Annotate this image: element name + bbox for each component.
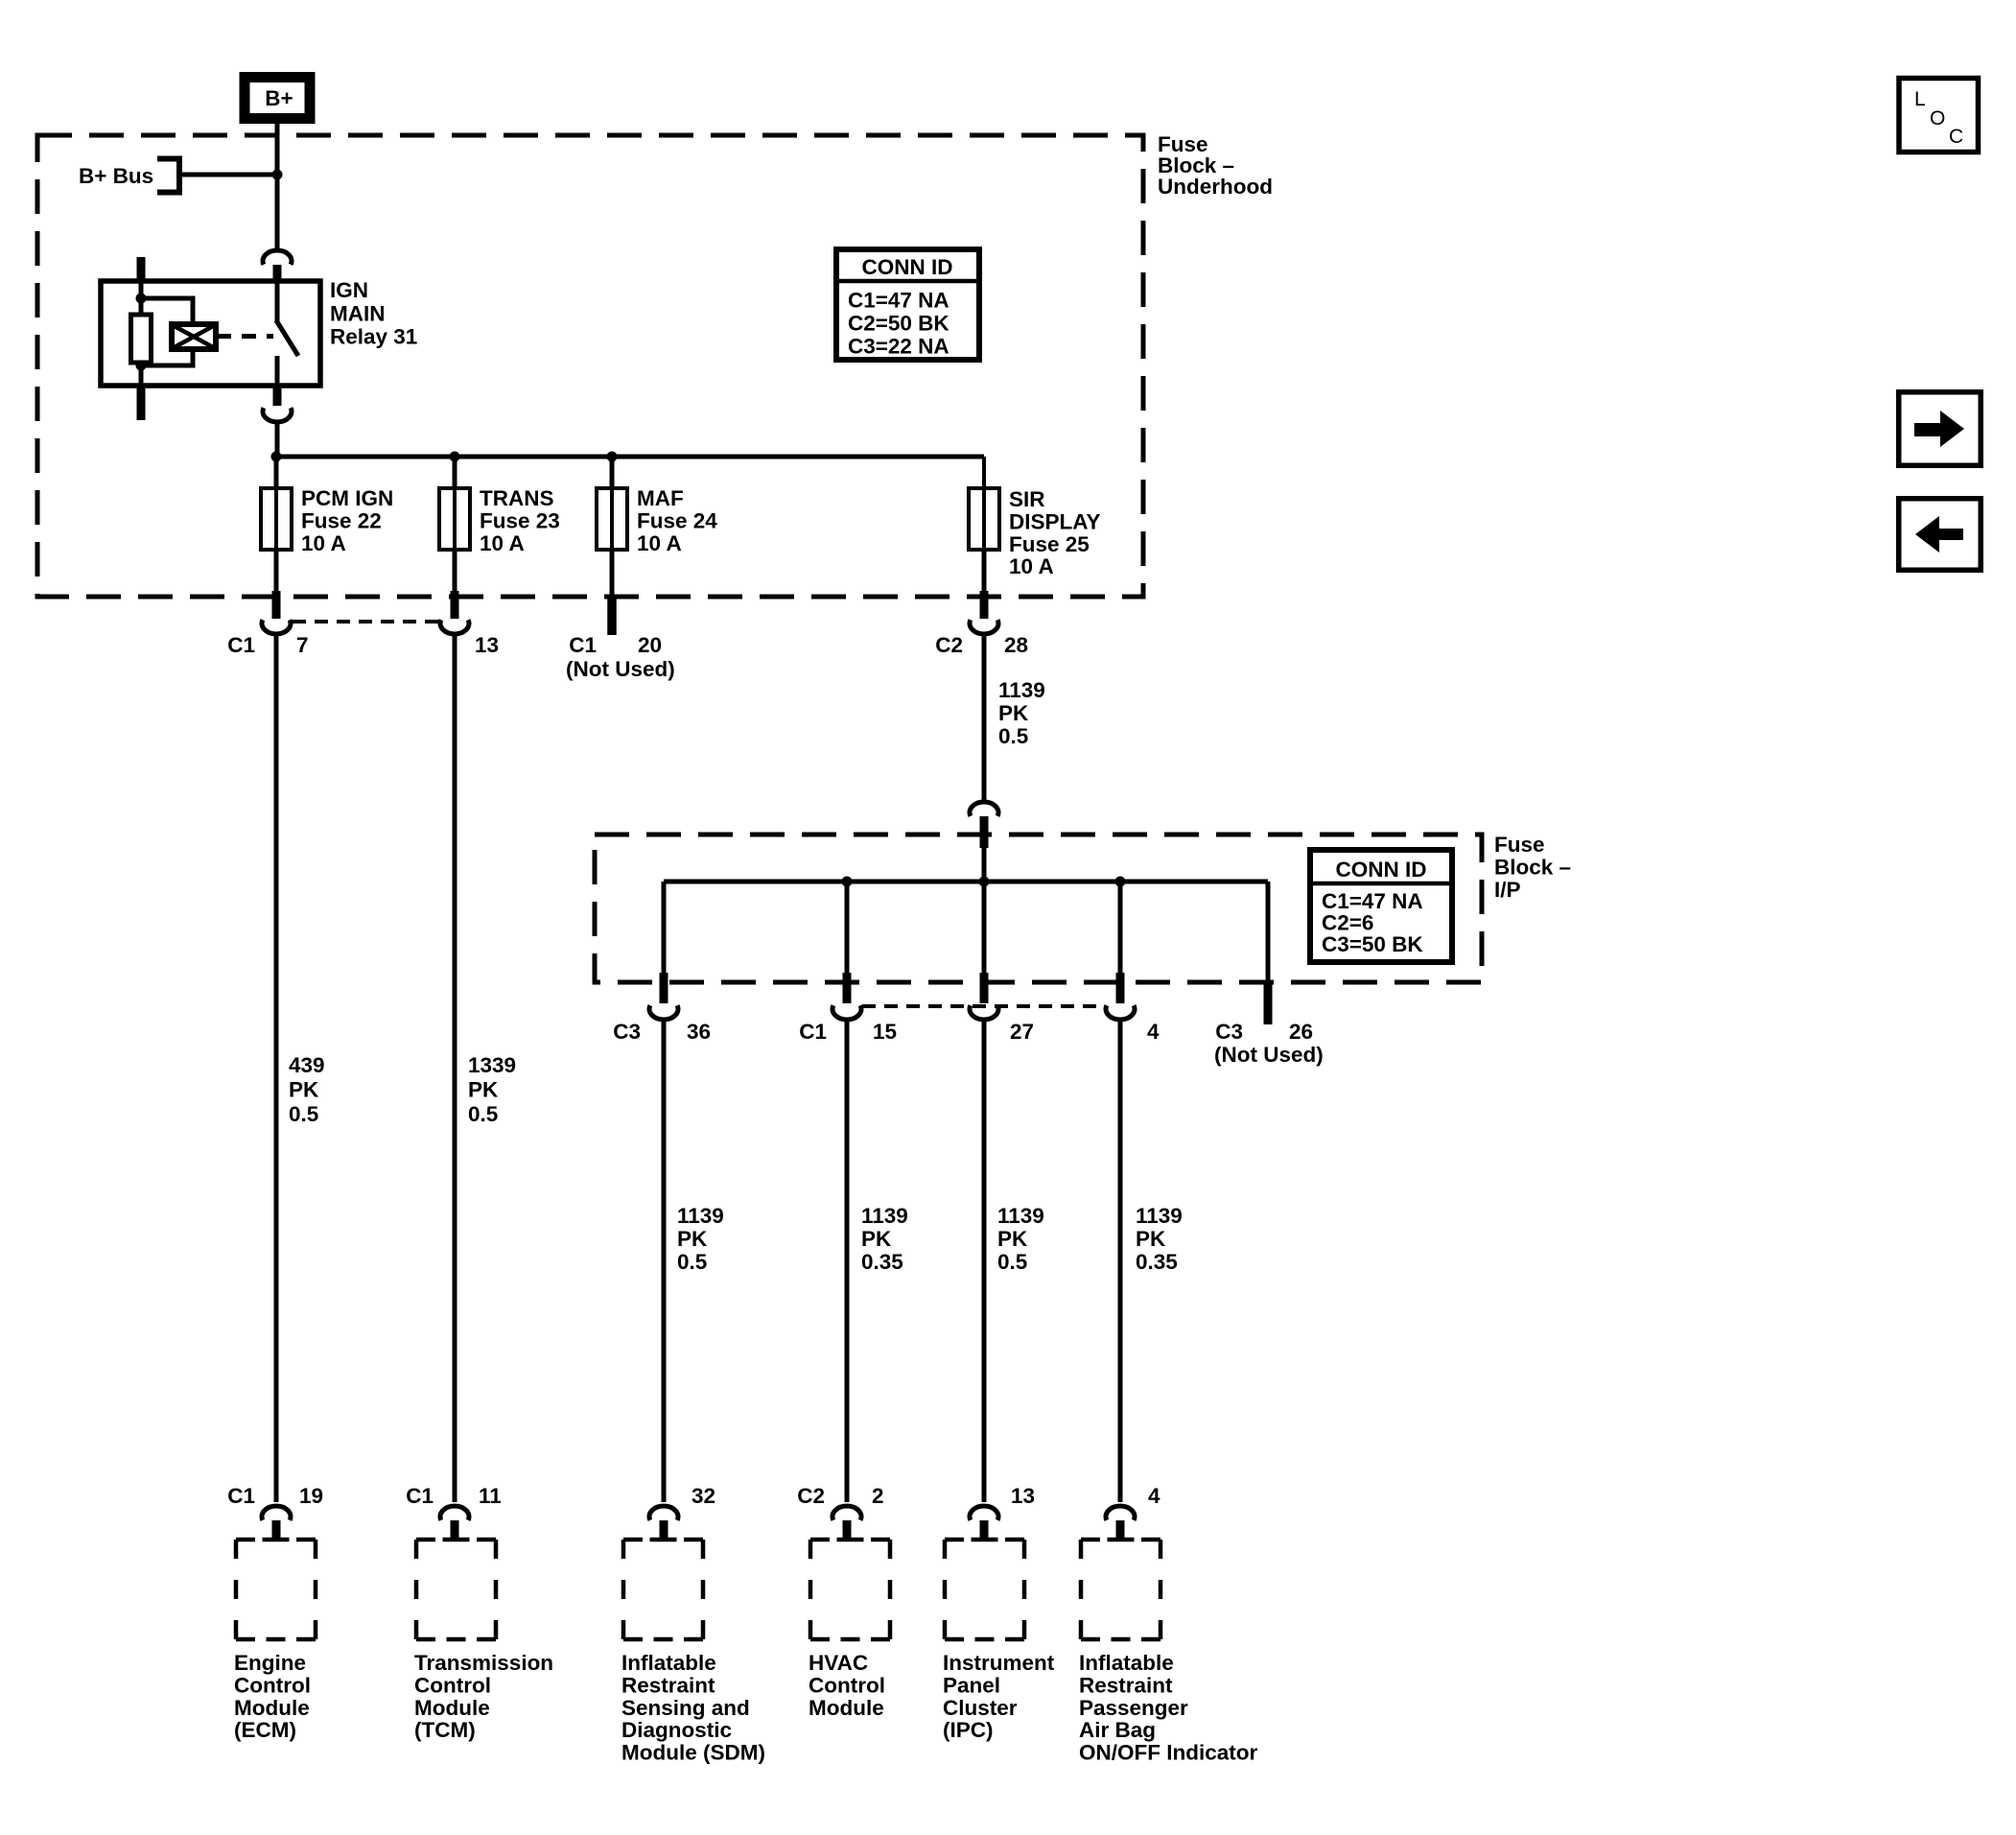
svg-text:Relay 31: Relay 31 bbox=[330, 325, 417, 349]
connector C2 pin 28 arc bbox=[970, 620, 998, 634]
SDM dashed box bbox=[623, 1538, 643, 1542]
svg-text:C1: C1 bbox=[799, 1020, 827, 1044]
svg-text:1139: 1139 bbox=[677, 1204, 724, 1228]
resistor (relay suppression) bbox=[131, 315, 152, 363]
svg-text:Instrument: Instrument bbox=[943, 1651, 1055, 1675]
wire circuit 439 run bbox=[274, 634, 279, 1502]
svg-text:Module: Module bbox=[414, 1696, 490, 1720]
svg-text:PK: PK bbox=[861, 1227, 892, 1251]
power terminal B+ box bbox=[245, 78, 310, 119]
svg-text:(Not Used): (Not Used) bbox=[566, 657, 675, 681]
svg-text:20: 20 bbox=[638, 633, 662, 657]
svg-text:Module: Module bbox=[809, 1696, 884, 1720]
svg-text:0.5: 0.5 bbox=[998, 724, 1028, 748]
fuse22 pin stub bbox=[272, 591, 281, 619]
svg-text:13: 13 bbox=[475, 633, 499, 657]
svg-text:27: 27 bbox=[1010, 1020, 1034, 1044]
wire circuit 1339 run bbox=[453, 634, 457, 1502]
svg-text:28: 28 bbox=[1004, 633, 1028, 657]
wire fuse23 output bbox=[453, 550, 457, 593]
svg-text:B+ Bus: B+ Bus bbox=[79, 164, 153, 188]
svg-text:10 A: 10 A bbox=[480, 531, 525, 555]
wire circuit 1139 to SDM bbox=[662, 1020, 667, 1502]
connector (I/P fuse block input) arc bbox=[970, 802, 998, 816]
svg-text:36: 36 bbox=[687, 1020, 711, 1044]
node bus at fuse 22 bbox=[271, 452, 282, 462]
svg-text:MAF: MAF bbox=[637, 486, 684, 510]
svg-text:11: 11 bbox=[479, 1484, 502, 1508]
svg-text:PK: PK bbox=[468, 1078, 499, 1102]
svg-text:O: O bbox=[1930, 107, 1945, 129]
svg-text:C1: C1 bbox=[406, 1484, 434, 1508]
svg-text:1139: 1139 bbox=[1136, 1204, 1183, 1228]
connector pin 13 arc bbox=[440, 620, 469, 634]
I/P output C3 pin 36 bbox=[662, 882, 667, 975]
node I/P bus at pin15 bbox=[842, 877, 853, 887]
svg-text:PK: PK bbox=[998, 701, 1029, 725]
I/P output pin 27 bbox=[982, 882, 987, 975]
svg-text:Fuse 24: Fuse 24 bbox=[637, 508, 717, 532]
svg-text:2: 2 bbox=[872, 1484, 884, 1508]
relay actuation dashed link bbox=[217, 334, 273, 339]
IPC dashed box bbox=[945, 1538, 964, 1542]
CONN ID table (I/P) bbox=[1310, 850, 1452, 962]
wire fuse25 output bbox=[982, 550, 987, 593]
wire circuit 1139 feed bbox=[982, 634, 987, 802]
svg-text:Fuse 25: Fuse 25 bbox=[1009, 532, 1090, 556]
node bus at fuse 24 bbox=[607, 452, 618, 462]
svg-text:Engine: Engine bbox=[234, 1651, 306, 1675]
svg-text:PCM IGN: PCM IGN bbox=[301, 486, 393, 510]
svg-text:Inflatable: Inflatable bbox=[1079, 1651, 1174, 1675]
svg-text:(Not Used): (Not Used) bbox=[1214, 1043, 1324, 1067]
svg-text:C3: C3 bbox=[1215, 1020, 1243, 1044]
connector (relay bottom) arc bbox=[263, 408, 292, 422]
svg-text:C3: C3 bbox=[613, 1020, 641, 1044]
HVAC dashed box bbox=[810, 1538, 830, 1542]
relay output pin stub bbox=[273, 386, 282, 406]
fuse24 not-used stub bbox=[607, 596, 617, 635]
wire circuit 1139 to indicator bbox=[1118, 1020, 1123, 1502]
svg-text:0.5: 0.5 bbox=[997, 1250, 1027, 1274]
svg-text:Control: Control bbox=[414, 1673, 491, 1697]
svg-text:1139: 1139 bbox=[861, 1204, 908, 1228]
svg-text:Module (SDM): Module (SDM) bbox=[621, 1741, 765, 1765]
svg-text:I/P: I/P bbox=[1494, 878, 1521, 902]
wire coil branch bottom bbox=[141, 347, 193, 365]
svg-text:C1: C1 bbox=[227, 633, 255, 657]
fuse23 pin stub bbox=[451, 591, 459, 619]
svg-text:Fuse 23: Fuse 23 bbox=[480, 508, 560, 532]
svg-text:(IPC): (IPC) bbox=[943, 1718, 994, 1742]
svg-text:C3=50 BK: C3=50 BK bbox=[1322, 932, 1423, 956]
svg-text:0.5: 0.5 bbox=[677, 1250, 707, 1274]
svg-text:Inflatable: Inflatable bbox=[621, 1651, 716, 1675]
dashed connector link C1 bbox=[293, 620, 438, 623]
svg-text:26: 26 bbox=[1289, 1020, 1313, 1044]
svg-text:Block –: Block – bbox=[1494, 855, 1571, 879]
node I/P bus at pin4 bbox=[1115, 877, 1126, 887]
svg-text:PK: PK bbox=[997, 1227, 1028, 1251]
I/P input pin stub bbox=[980, 816, 989, 848]
svg-text:SIR: SIR bbox=[1009, 487, 1045, 511]
LOC reference icon bbox=[1899, 79, 1979, 153]
svg-text:C2=6: C2=6 bbox=[1322, 910, 1373, 934]
wire fuse24 output bbox=[610, 550, 615, 595]
wire I/P input to bus bbox=[982, 848, 987, 882]
relay coil terminal stub bottom bbox=[137, 386, 146, 420]
svg-text:Transmission: Transmission bbox=[414, 1651, 553, 1675]
svg-text:C1: C1 bbox=[227, 1484, 255, 1508]
ECM dashed box bbox=[236, 1538, 255, 1542]
svg-text:C1=47 NA: C1=47 NA bbox=[1322, 889, 1423, 913]
fuse25 pin stub bbox=[980, 591, 989, 619]
svg-text:439: 439 bbox=[289, 1053, 325, 1077]
svg-text:B+: B+ bbox=[265, 86, 293, 110]
wire fuse supply bus bbox=[275, 455, 984, 459]
svg-text:0.35: 0.35 bbox=[861, 1250, 903, 1274]
svg-text:13: 13 bbox=[1011, 1484, 1035, 1508]
fuse F22 PCM IGN 10A bbox=[274, 457, 279, 488]
svg-text:HVAC: HVAC bbox=[809, 1651, 868, 1675]
svg-text:0.35: 0.35 bbox=[1136, 1250, 1178, 1274]
svg-text:1339: 1339 bbox=[468, 1053, 516, 1077]
svg-text:PK: PK bbox=[1136, 1227, 1166, 1251]
svg-text:C: C bbox=[1949, 126, 1963, 148]
svg-text:Underhood: Underhood bbox=[1158, 175, 1273, 199]
svg-text:7: 7 bbox=[296, 633, 309, 657]
svg-text:C1=47 NA: C1=47 NA bbox=[848, 289, 949, 313]
svg-text:4: 4 bbox=[1148, 1484, 1160, 1508]
connector C2 pin 2 (HVAC) arc bbox=[832, 1506, 861, 1520]
svg-text:Module: Module bbox=[234, 1696, 310, 1720]
svg-text:15: 15 bbox=[873, 1020, 897, 1044]
svg-text:C3=22 NA: C3=22 NA bbox=[848, 335, 949, 359]
svg-text:1139: 1139 bbox=[998, 678, 1045, 702]
CONN ID table (underhood) bbox=[836, 249, 979, 360]
fuse F23 TRANS 10A bbox=[453, 457, 457, 488]
wire relay switch output bbox=[275, 356, 280, 386]
back arrow icon bbox=[1899, 499, 1981, 571]
svg-text:10 A: 10 A bbox=[1009, 554, 1054, 578]
fuse F25 SIR DISPLAY 10A bbox=[982, 457, 986, 488]
node bus at fuse 23 bbox=[450, 452, 460, 462]
I/P output C3 pin 26 wire bbox=[1266, 882, 1271, 984]
svg-text:1139: 1139 bbox=[997, 1204, 1044, 1228]
relay top pin stub bbox=[273, 265, 282, 281]
relay coil terminal stub top bbox=[137, 257, 146, 281]
dashed connector link I/P bbox=[862, 1004, 1105, 1008]
svg-text:Panel: Panel bbox=[943, 1673, 1000, 1697]
wire I/P distribution bus bbox=[664, 880, 1268, 884]
wire relay switch common bbox=[275, 281, 280, 321]
svg-text:CONN ID: CONN ID bbox=[862, 255, 953, 279]
svg-text:C2=50 BK: C2=50 BK bbox=[848, 312, 949, 336]
wire B+ Bus tap bbox=[182, 173, 277, 177]
svg-text:DISPLAY: DISPLAY bbox=[1009, 509, 1100, 533]
wire B+ terminal to relay connector bbox=[275, 124, 280, 248]
svg-text:C2: C2 bbox=[797, 1484, 825, 1508]
wire circuit 1139 to HVAC bbox=[845, 1020, 850, 1502]
svg-text:4: 4 bbox=[1147, 1020, 1160, 1044]
fuse F24 MAF 10A bbox=[610, 457, 615, 488]
svg-text:MAIN: MAIN bbox=[330, 301, 386, 325]
forward arrow icon bbox=[1899, 392, 1981, 466]
I/P output pin 4 bbox=[1118, 882, 1123, 975]
TCM dashed box bbox=[416, 1538, 435, 1542]
svg-text:Restraint: Restraint bbox=[621, 1673, 715, 1697]
svg-text:19: 19 bbox=[299, 1484, 323, 1508]
svg-text:TRANS: TRANS bbox=[480, 486, 554, 510]
connector C1 pin 19 (ECM) arc bbox=[262, 1506, 291, 1520]
fuse block I/P dashed enclosure bbox=[595, 835, 1482, 982]
wire fuse22 output bbox=[274, 550, 279, 593]
B+ Bus bar symbol bbox=[157, 159, 179, 193]
wire relay coil left leg lower bbox=[139, 361, 144, 386]
air bag indicator dashed box bbox=[1081, 1538, 1100, 1542]
connector pin 4 (air bag indicator) arc bbox=[1106, 1506, 1135, 1520]
svg-text:ON/OFF Indicator: ON/OFF Indicator bbox=[1079, 1741, 1257, 1765]
svg-text:0.5: 0.5 bbox=[468, 1102, 498, 1126]
connector (relay top) arc bbox=[263, 250, 292, 265]
fuse block underhood dashed enclosure bbox=[37, 135, 1143, 597]
wire relay coil left leg upper bbox=[139, 281, 144, 318]
svg-text:Passenger: Passenger bbox=[1079, 1696, 1188, 1720]
node coil-resistor bottom bbox=[136, 361, 147, 371]
svg-text:PK: PK bbox=[289, 1078, 319, 1102]
svg-text:Control: Control bbox=[809, 1673, 885, 1697]
svg-text:Fuse 22: Fuse 22 bbox=[301, 508, 382, 532]
relay coil (box with X) bbox=[172, 324, 216, 349]
wire relay output to fuse bus bbox=[275, 422, 280, 457]
svg-text:C1: C1 bbox=[569, 633, 597, 657]
svg-text:(TCM): (TCM) bbox=[414, 1718, 476, 1742]
svg-text:Control: Control bbox=[234, 1673, 311, 1697]
svg-text:Cluster: Cluster bbox=[943, 1696, 1018, 1720]
svg-text:Fuse: Fuse bbox=[1494, 833, 1545, 857]
svg-text:C2: C2 bbox=[935, 633, 963, 657]
svg-text:CONN ID: CONN ID bbox=[1336, 858, 1427, 882]
wire coil branch top bbox=[141, 298, 193, 326]
node B+ bus junction bbox=[272, 170, 283, 180]
connector pin 32 (SDM) arc bbox=[649, 1506, 678, 1520]
svg-text:L: L bbox=[1914, 88, 1926, 110]
svg-text:10 A: 10 A bbox=[301, 531, 346, 555]
node I/P bus at pin27 bbox=[979, 877, 990, 887]
svg-text:10 A: 10 A bbox=[637, 531, 682, 555]
wire circuit 1139 to IPC bbox=[982, 1020, 987, 1502]
svg-text:Diagnostic: Diagnostic bbox=[621, 1718, 732, 1742]
svg-text:Sensing and: Sensing and bbox=[621, 1696, 750, 1720]
connector C1 pin 11 (TCM) arc bbox=[440, 1506, 469, 1520]
connector C1 pin 7 arc bbox=[262, 620, 291, 634]
svg-text:(ECM): (ECM) bbox=[234, 1718, 296, 1742]
relay switch blade bbox=[276, 320, 298, 356]
connector pin 13 (IPC) arc bbox=[970, 1506, 998, 1520]
relay K31 box bbox=[101, 281, 320, 386]
I/P output C1 pin 15 bbox=[845, 882, 850, 975]
svg-text:32: 32 bbox=[692, 1484, 715, 1508]
svg-text:Air Bag: Air Bag bbox=[1079, 1718, 1156, 1742]
svg-text:IGN: IGN bbox=[330, 278, 368, 302]
node coil-resistor top bbox=[136, 294, 147, 304]
svg-text:PK: PK bbox=[677, 1227, 708, 1251]
svg-text:Restraint: Restraint bbox=[1079, 1673, 1173, 1697]
I/P pin26 not-used stub bbox=[1264, 982, 1273, 1024]
svg-text:0.5: 0.5 bbox=[289, 1102, 318, 1126]
